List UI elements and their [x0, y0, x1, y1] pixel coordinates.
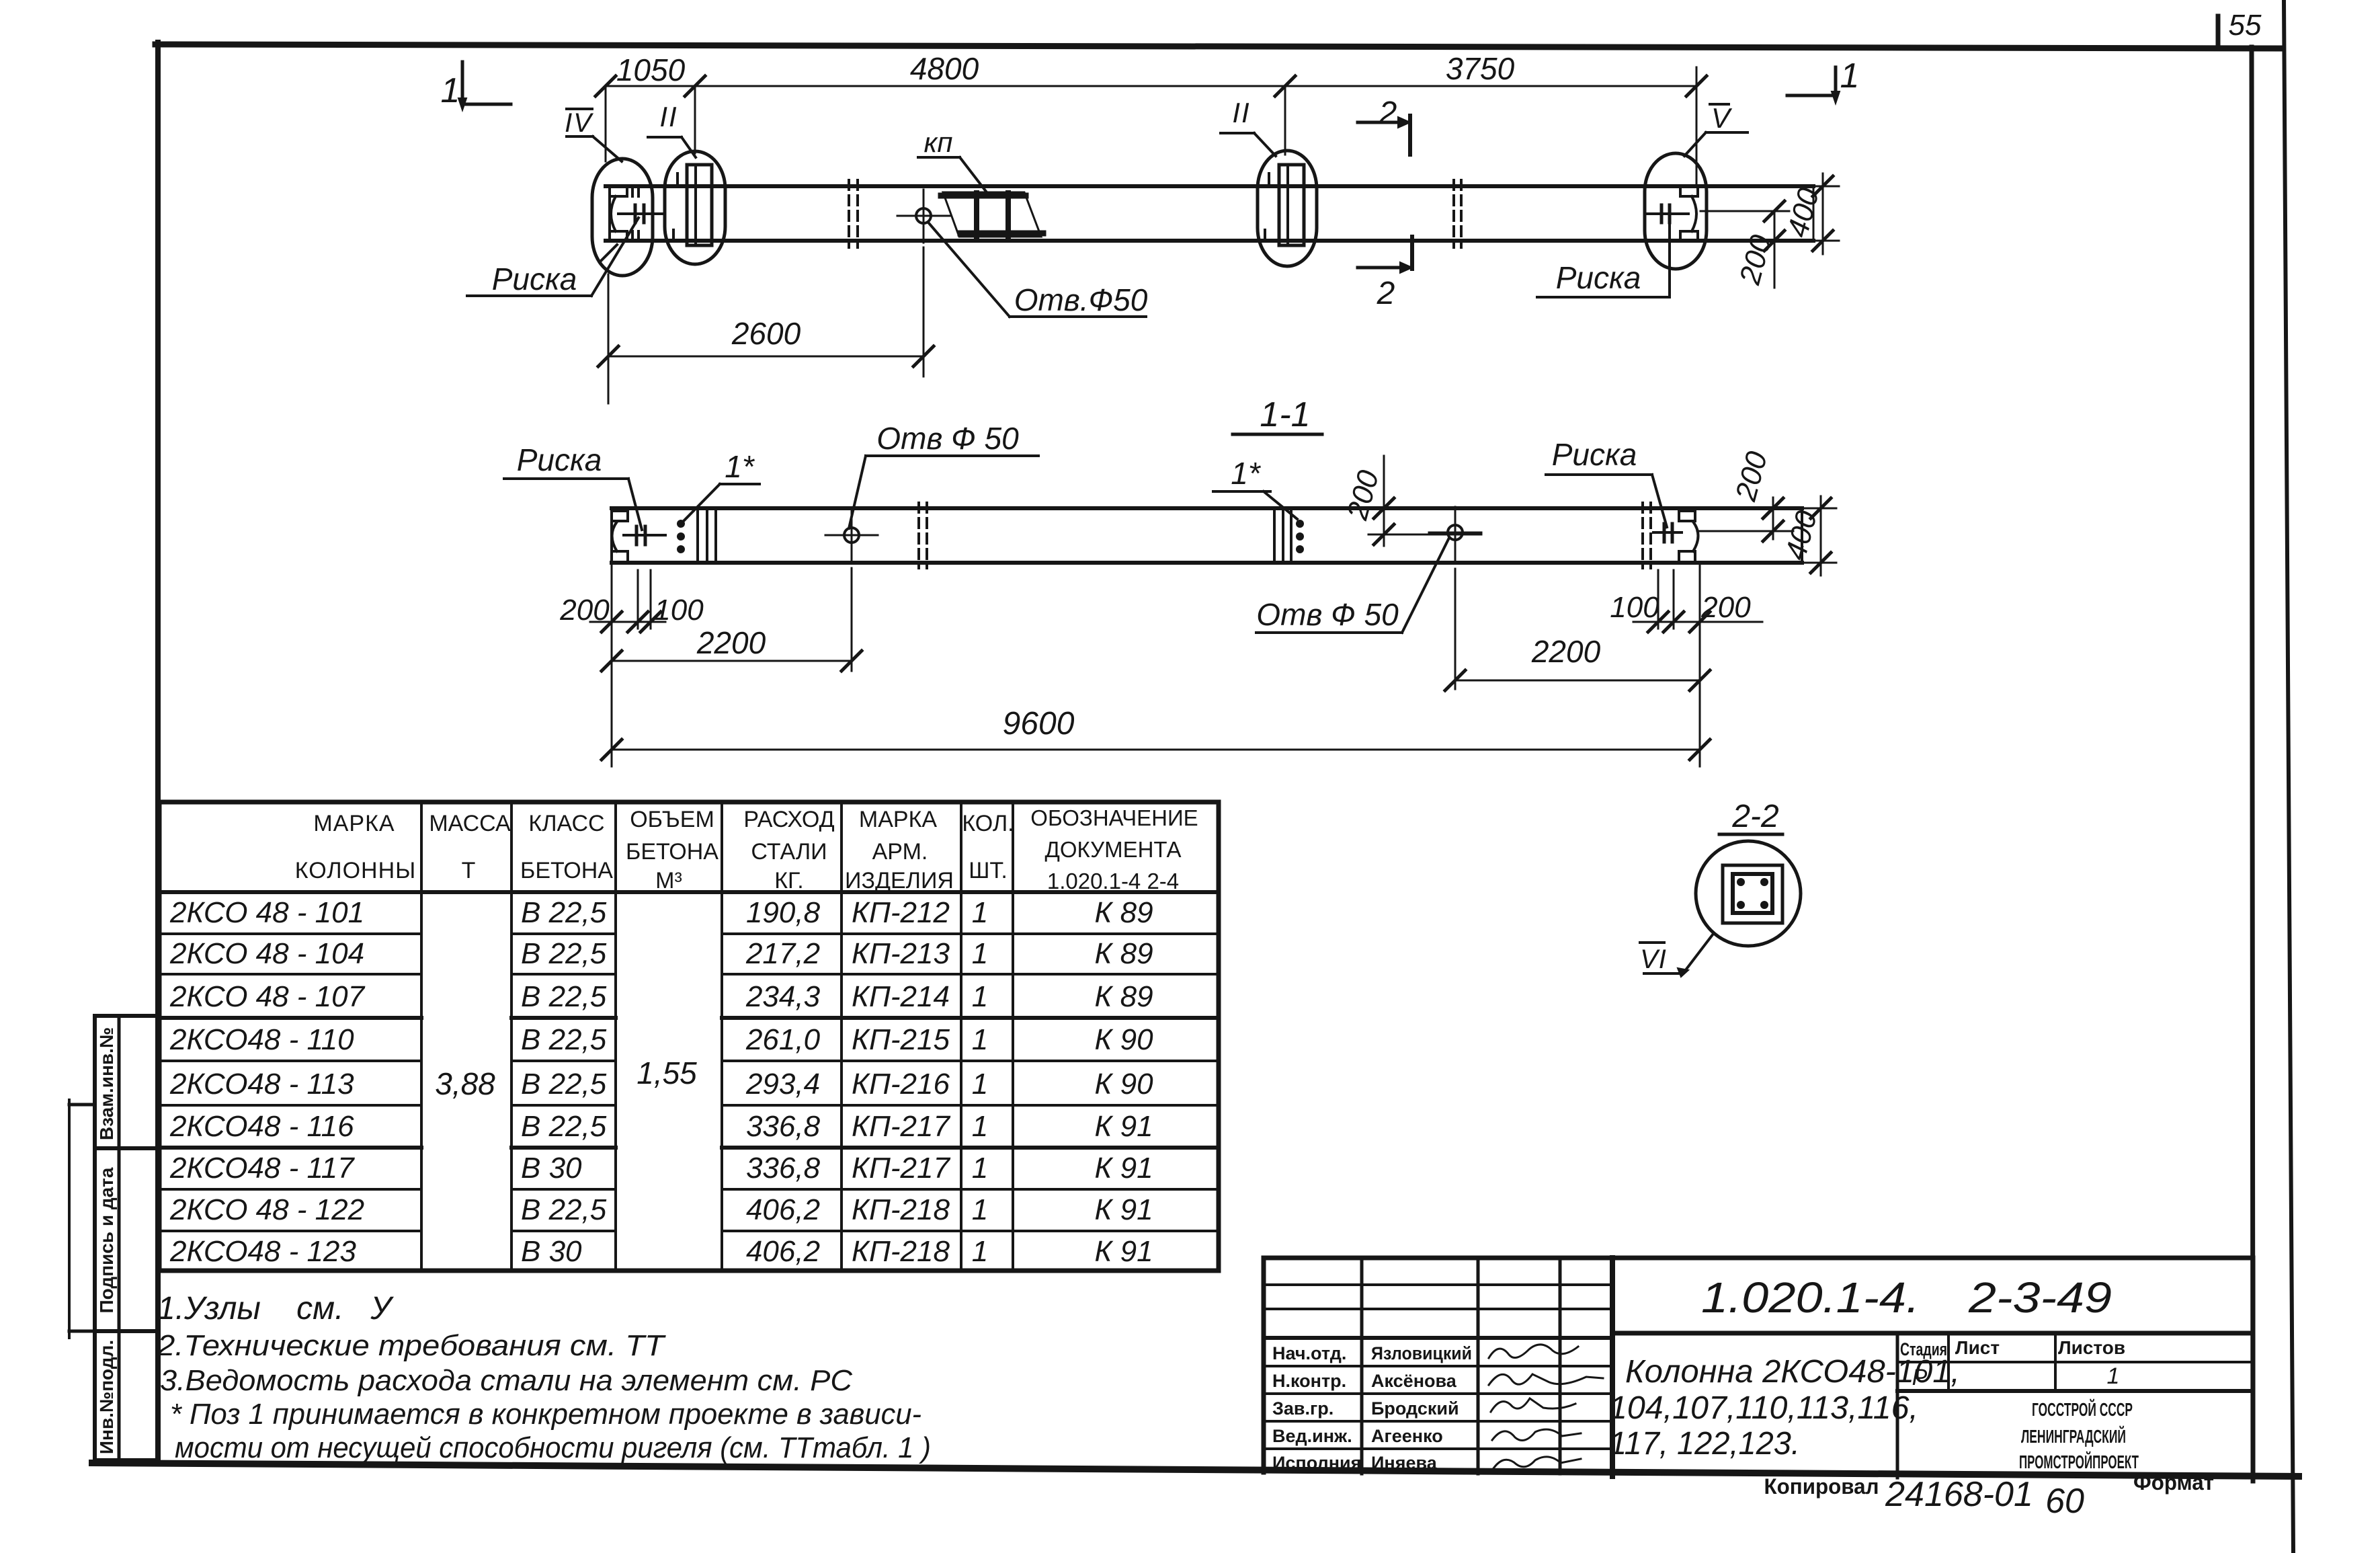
stage value P: [1912, 1365, 1928, 1390]
dim 100/200 right line: [1633, 612, 1762, 632]
left console tick: [676, 173, 679, 186]
sheet frame top border: [155, 44, 2280, 48]
dim 200 right top line: [1764, 201, 1784, 288]
detail 2-2 circle: [1696, 841, 1801, 946]
dim 2600 ext b: [923, 247, 925, 376]
riska label left 1-1: [504, 442, 642, 530]
svg-text:60: 60: [2045, 1482, 2084, 1521]
section 1-1 title: [1233, 395, 1322, 434]
svg-text:Лист: Лист: [1955, 1337, 2000, 1358]
svg-text:* Поз 1 принимается в конкретн: * Поз 1 принимается в конкретном проекте…: [170, 1398, 921, 1431]
svg-text:К 91: К 91: [1094, 1235, 1153, 1268]
dimension chain line: [606, 85, 1696, 87]
svg-text:К 91: К 91: [1094, 1193, 1153, 1226]
sec ext left long: [611, 565, 613, 766]
stage header list: [1955, 1337, 2000, 1358]
dim extension c: [1284, 86, 1286, 155]
right end top flange plate: [1680, 187, 1698, 196]
kp plate stud 1: [974, 193, 979, 236]
sec ext 100 left b: [650, 570, 652, 629]
splice lines right: [1274, 508, 1291, 563]
svg-text:104,107,110,113,116,: 104,107,110,113,116,: [1609, 1390, 1918, 1426]
margin tick upper: [69, 1100, 95, 1338]
org name line1: [2032, 1398, 2133, 1420]
svg-text:Риска: Риска: [517, 442, 602, 477]
sheet trim edge right: [2284, 0, 2293, 1553]
column break lines 2: [1454, 180, 1461, 247]
svg-text:1*: 1*: [1231, 456, 1262, 491]
svg-text:В 22,5: В 22,5: [521, 896, 607, 929]
footer kopiroval: [1764, 1474, 1879, 1499]
svg-text:2КСО 48 - 122: 2КСО 48 - 122: [169, 1193, 364, 1226]
footer format: [2133, 1470, 2214, 1495]
sec right channel arc: [1693, 522, 1698, 551]
riska label right top view: [1537, 225, 1670, 297]
margin label inv n podl: [96, 1340, 117, 1454]
svg-text:1050: 1050: [616, 52, 686, 87]
dim text 4800: [910, 51, 979, 86]
svg-text:Н.контр.: Н.контр.: [1272, 1371, 1346, 1391]
svg-text:2КСО 48 - 101: 2КСО 48 - 101: [169, 896, 364, 929]
svg-text:РАСХОД: РАСХОД: [743, 807, 834, 832]
svg-text:К 91: К 91: [1094, 1110, 1153, 1143]
svg-text:ЛЕНИНГРАДСКИЙ: ЛЕНИНГРАДСКИЙ: [2021, 1425, 2126, 1447]
kp plate top bar: [941, 193, 1026, 199]
dim extension a: [605, 86, 607, 161]
detail oval IV: [592, 159, 653, 276]
sec right top flange: [1679, 511, 1695, 521]
right end channel arc: [1692, 196, 1696, 231]
section label V: [1684, 102, 1748, 156]
svg-text:2: 2: [1379, 95, 1397, 131]
svg-text:II: II: [659, 101, 678, 132]
svg-text:К 90: К 90: [1094, 1023, 1153, 1056]
svg-text:2КСО48 - 116: 2КСО48 - 116: [169, 1110, 354, 1143]
right end bottom flange plate: [1680, 231, 1698, 240]
dim 200 left text: [559, 594, 610, 627]
svg-text:1: 1: [972, 937, 988, 970]
svg-text:В 22,5: В 22,5: [521, 980, 607, 1013]
section mark 2 upper: [1358, 95, 1410, 155]
title block signatures: [1489, 1345, 1603, 1468]
svg-text:Бродский: Бродский: [1371, 1398, 1459, 1419]
svg-text:ПРОМСТРОЙПРОЕКТ: ПРОМСТРОЙПРОЕКТ: [2019, 1451, 2139, 1472]
svg-text:II: II: [1232, 97, 1250, 128]
section mark 1 left: [441, 62, 511, 110]
dim 400 text: [1781, 184, 1825, 241]
margin box top line: [95, 1014, 158, 1018]
margin label podpis i data: [96, 1167, 117, 1313]
left console plate: [687, 165, 712, 245]
svg-text:1: 1: [972, 1110, 988, 1143]
svg-text:ГОССТРОЙ СССР: ГОССТРОЙ СССР: [2032, 1398, 2133, 1420]
sec ext top right: [1805, 508, 1836, 510]
svg-text:1,55: 1,55: [637, 1056, 697, 1090]
rebar dots left: [677, 520, 685, 553]
page number tick: [2216, 16, 2221, 47]
dim tick b: [685, 76, 705, 96]
detail 2-2 rebar dot 4: [1760, 901, 1768, 909]
sheet frame left border: [155, 42, 161, 1463]
svg-text:В 30: В 30: [521, 1235, 582, 1268]
note line 2: [157, 1329, 666, 1362]
dim 400 sec text: [1779, 507, 1823, 563]
margin box line 3: [95, 1329, 158, 1333]
kp plate stud 2: [1006, 193, 1011, 236]
mid console corbel: [1265, 230, 1279, 240]
svg-text:КГ.: КГ.: [774, 868, 804, 893]
svg-text:1.Узлы см. У: 1.Узлы см. У: [157, 1291, 394, 1326]
hole otv f50 sec right: [1429, 507, 1481, 561]
note line 4: [170, 1398, 921, 1431]
svg-text:2КСО48 - 110: 2КСО48 - 110: [169, 1023, 354, 1056]
svg-text:В 22,5: В 22,5: [521, 937, 607, 970]
svg-text:1.020.1-4 2-4: 1.020.1-4 2-4: [1047, 869, 1179, 893]
svg-text:400: 400: [1781, 184, 1825, 241]
svg-text:КП-217: КП-217: [852, 1152, 950, 1185]
svg-text:2КСО48 - 113: 2КСО48 - 113: [169, 1068, 354, 1101]
svg-text:1: 1: [1840, 56, 1860, 95]
hole otv f50 top view: [897, 190, 950, 243]
org name line2: [2021, 1425, 2126, 1447]
sec left top flange: [612, 511, 628, 521]
kp label: [918, 126, 987, 192]
left end small tick bottom: [632, 231, 639, 239]
svg-text:Взам.инв.№: Взам.инв.№: [96, 1027, 117, 1140]
dim 100/200 left line: [590, 612, 665, 632]
dim 400 sec line: [1811, 496, 1831, 575]
svg-text:КП-213: КП-213: [852, 937, 950, 970]
dim 200 end line: [1763, 497, 1783, 541]
column elevation left end face: [608, 186, 611, 241]
detail 2-2 title: [1719, 799, 1782, 834]
svg-text:В 22,5: В 22,5: [521, 1068, 607, 1101]
svg-text:2200: 2200: [696, 625, 766, 660]
detail oval II left: [665, 151, 725, 264]
detail 2-2 rebar dot 3: [1737, 901, 1745, 909]
column elevation top chord: [606, 184, 1813, 188]
rebar dots right: [1296, 520, 1304, 553]
sec right riska mark: [1653, 524, 1682, 542]
svg-text:В 22,5: В 22,5: [521, 1193, 607, 1226]
svg-text:1: 1: [972, 1193, 988, 1226]
svg-text:2200: 2200: [1531, 634, 1601, 669]
svg-text:2.Технические требования см: 2.Технические требования см. ТТ: [157, 1329, 666, 1362]
sec ext 100 left a: [637, 570, 639, 629]
svg-text:Аксёнова: Аксёнова: [1371, 1371, 1457, 1391]
svg-text:200: 200: [559, 594, 610, 627]
otv f50 label top: [929, 223, 1148, 317]
title block job titles: [1272, 1343, 1361, 1473]
detail 2-2 rebar dot 2: [1760, 878, 1768, 886]
svg-text:ОБЪЕМ: ОБЪЕМ: [630, 807, 714, 832]
dim 9600 text: [1003, 706, 1075, 742]
svg-text:МАРКА: МАРКА: [859, 807, 937, 832]
hole otv f50 sec left: [825, 510, 878, 563]
table data rows: [169, 896, 1153, 1268]
svg-text:200: 200: [1729, 448, 1774, 505]
dim 2200 right text: [1531, 634, 1601, 669]
title block object name line3: [1609, 1426, 1800, 1462]
svg-text:IV: IV: [565, 108, 593, 138]
svg-text:4800: 4800: [910, 51, 979, 86]
mid console tick: [1268, 173, 1270, 186]
page number 55: [2229, 9, 2262, 42]
svg-text:Исполния: Исполния: [1272, 1453, 1361, 1473]
svg-text:кп: кп: [924, 126, 953, 158]
svg-text:Т: Т: [462, 858, 476, 883]
mid console plate: [1279, 165, 1304, 245]
section label II left: [648, 101, 696, 157]
svg-text:КЛАСС: КЛАСС: [528, 811, 604, 836]
svg-text:КП-218: КП-218: [852, 1193, 950, 1226]
svg-text:2КСО48 - 123: 2КСО48 - 123: [169, 1235, 356, 1268]
svg-text:КП-215: КП-215: [852, 1023, 950, 1056]
svg-text:200: 200: [1700, 591, 1751, 624]
riska label right 1-1: [1546, 437, 1667, 527]
sec ext hole right: [1454, 569, 1456, 689]
section bar right end face: [1801, 508, 1803, 563]
svg-text:2КСО 48 - 104: 2КСО 48 - 104: [169, 937, 364, 970]
svg-text:234,3: 234,3: [745, 980, 821, 1013]
dim tick d: [1686, 76, 1707, 96]
svg-text:2: 2: [1377, 276, 1395, 311]
svg-text:Листов: Листов: [2058, 1337, 2125, 1358]
sec break dashed right: [1643, 503, 1651, 568]
dim extension b: [694, 86, 696, 153]
detail 2-2 inner square: [1733, 874, 1772, 913]
svg-text:1: 1: [972, 980, 988, 1013]
column elevation bottom chord: [606, 239, 1813, 243]
dim 200 right bottom text: [1700, 591, 1751, 624]
svg-text:406,2: 406,2: [746, 1235, 820, 1268]
left console corbel: [673, 230, 687, 240]
sec ext 100 right b: [1673, 570, 1675, 629]
dim 2200 right line: [1445, 670, 1710, 690]
section bar top chord: [612, 506, 1802, 510]
table grid: [159, 802, 1219, 1271]
kp plate outline: [943, 192, 1041, 237]
dim extension d: [1696, 67, 1698, 185]
svg-text:Отв Ф 50: Отв Ф 50: [1256, 597, 1399, 632]
svg-text:1.020.1-4.: 1.020.1-4.: [1701, 1273, 1920, 1322]
svg-text:КП-212: КП-212: [852, 896, 950, 929]
note line 3: [160, 1364, 853, 1397]
sheet frame right inner border: [2252, 47, 2253, 1480]
svg-text:Язловицкий: Язловицкий: [1371, 1343, 1472, 1363]
table mass value: [435, 1066, 495, 1101]
svg-text:СТАЛИ: СТАЛИ: [751, 839, 827, 865]
org name line3: [2019, 1451, 2139, 1472]
sheet frame bottom border: [92, 1463, 2299, 1476]
svg-text:Иняева: Иняева: [1371, 1453, 1438, 1473]
section bar bottom chord: [612, 561, 1802, 565]
footer 60: [2045, 1482, 2084, 1521]
svg-text:Зав.гр.: Зав.гр.: [1272, 1398, 1333, 1419]
svg-text:Агеенко: Агеенко: [1371, 1426, 1443, 1446]
svg-text:Р: Р: [1912, 1365, 1928, 1390]
svg-text:V: V: [1711, 102, 1733, 134]
section label II mid: [1221, 97, 1276, 156]
svg-text:Нач.отд.: Нач.отд.: [1272, 1343, 1346, 1363]
svg-text:ДОКУМЕНТА: ДОКУМЕНТА: [1045, 837, 1182, 862]
sec ext hole left: [851, 568, 853, 671]
svg-text:М³: М³: [655, 868, 682, 893]
dim 100 left text: [654, 594, 704, 627]
svg-text:Риска: Риска: [492, 262, 577, 296]
label 1* left: [684, 449, 760, 520]
svg-text:2-3-49: 2-3-49: [1968, 1273, 2112, 1322]
svg-text:МАССА: МАССА: [429, 811, 511, 836]
dim text 3750: [1446, 51, 1515, 86]
kp plate bottom bar: [960, 231, 1043, 237]
svg-text:1: 1: [972, 1023, 988, 1056]
sec left channel arc: [612, 522, 618, 551]
svg-text:400: 400: [1779, 507, 1823, 563]
svg-text:БЕТОНА: БЕТОНА: [520, 858, 613, 883]
svg-text:Отв.Ф50: Отв.Ф50: [1014, 282, 1148, 317]
detail oval II mid: [1258, 151, 1317, 266]
svg-text:КП-218: КП-218: [852, 1235, 950, 1268]
riska label left top view: [467, 218, 639, 296]
detail 2-2 rebar dot 1: [1737, 878, 1745, 886]
svg-text:К 91: К 91: [1094, 1152, 1153, 1185]
section label IV: [565, 108, 622, 161]
svg-text:Вед.инж.: Вед.инж.: [1272, 1426, 1352, 1446]
dim 2200 left line: [602, 651, 862, 671]
svg-text:Инв.№подл.: Инв.№подл.: [96, 1340, 117, 1454]
table volume value: [637, 1056, 697, 1090]
svg-text:9600: 9600: [1003, 706, 1075, 742]
svg-text:1: 1: [441, 71, 460, 110]
svg-text:КП-217: КП-217: [852, 1110, 950, 1143]
dim 400 ext top: [1816, 186, 1839, 188]
sec ext bottom right: [1805, 562, 1836, 564]
left end top flange plate: [610, 187, 627, 196]
svg-text:2КСО 48 - 107: 2КСО 48 - 107: [169, 980, 366, 1013]
svg-text:Подпись и дата: Подпись и дата: [96, 1167, 117, 1313]
label 1* right: [1213, 456, 1297, 519]
note line 1: [157, 1291, 394, 1326]
svg-text:мости от несущей способности: мости от несущей способности ригеля (см.…: [175, 1431, 931, 1464]
title block object name: [1625, 1354, 1960, 1390]
section mark 1 right: [1787, 56, 1859, 104]
dim 2200 left text: [696, 625, 766, 660]
document number: [1701, 1273, 2112, 1322]
dim 200 end ext: [1697, 530, 1793, 532]
svg-text:2КСО48 - 117: 2КСО48 - 117: [169, 1152, 355, 1185]
svg-text:К 90: К 90: [1094, 1068, 1153, 1101]
margin label vzam inv: [96, 1027, 117, 1140]
dim 2600 line: [598, 346, 934, 366]
stage header stadija: [1900, 1339, 1947, 1359]
svg-text:100: 100: [654, 594, 704, 627]
title block object name line2: [1609, 1390, 1918, 1426]
dim 200 end text: [1729, 448, 1774, 505]
dim text 1050: [616, 52, 686, 87]
detail 2-2 leader: [1644, 934, 1713, 977]
svg-text:КОЛ.: КОЛ.: [962, 811, 1014, 836]
svg-text:Стадия: Стадия: [1900, 1339, 1947, 1359]
svg-text:БЕТОНА: БЕТОНА: [626, 839, 719, 865]
title block names: [1371, 1343, 1472, 1473]
svg-text:406,2: 406,2: [746, 1193, 820, 1226]
sec ext 100 right a: [1657, 570, 1659, 629]
sec left riska mark: [624, 526, 665, 545]
svg-text:1: 1: [972, 1152, 988, 1185]
note line 5: [175, 1431, 931, 1464]
margin box line 2: [95, 1146, 158, 1150]
svg-text:В 30: В 30: [521, 1152, 582, 1185]
sec ext right long: [1699, 565, 1701, 766]
svg-text:1: 1: [972, 896, 988, 929]
left end bottom flange plate: [610, 231, 627, 240]
svg-text:Риска: Риска: [1556, 260, 1641, 295]
splice lines left: [698, 508, 716, 563]
footer copy number: [1885, 1475, 2033, 1514]
dim 100 right text: [1610, 591, 1659, 624]
node label VI: [1640, 943, 1667, 974]
margin tick lower: [69, 1330, 95, 1333]
svg-text:ИЗДЕЛИЯ: ИЗДЕЛИЯ: [845, 868, 954, 893]
dim tick c: [1275, 76, 1295, 96]
listov value 1: [2107, 1363, 2120, 1389]
svg-text:1*: 1*: [725, 449, 755, 484]
dim 200 mid text: [1341, 467, 1386, 524]
dim 400 ext bottom: [1816, 240, 1839, 242]
svg-text:КОЛОННЫ: КОЛОННЫ: [295, 858, 416, 883]
svg-text:2600: 2600: [731, 316, 801, 351]
svg-text:К 89: К 89: [1094, 980, 1153, 1013]
svg-text:Формат: Формат: [2133, 1470, 2214, 1495]
svg-text:АРМ.: АРМ.: [872, 839, 928, 865]
sec right bottom flange: [1679, 551, 1695, 562]
table header texts: [295, 805, 1198, 893]
svg-text:1: 1: [2107, 1363, 2120, 1389]
svg-text:1: 1: [972, 1235, 988, 1268]
margin box verticals: [95, 1016, 119, 1460]
column elevation right end face: [1813, 186, 1815, 241]
margin box bottom line: [95, 1458, 158, 1462]
dim 200 right top text: [1733, 231, 1778, 288]
left end channel arc: [611, 196, 616, 231]
svg-text:Риска: Риска: [1552, 437, 1637, 472]
dim 200 mid ext: [1368, 534, 1481, 536]
section mark 2 lower: [1358, 237, 1412, 311]
svg-text:1: 1: [972, 1068, 988, 1101]
svg-text:К 89: К 89: [1094, 896, 1153, 929]
left end riska mark: [618, 205, 664, 223]
title block grid: [1264, 1258, 2253, 1481]
svg-text:КП-216: КП-216: [852, 1068, 950, 1101]
detail oval V: [1645, 153, 1707, 269]
svg-text:VI: VI: [1640, 945, 1667, 974]
sec left bottom flange: [612, 551, 628, 562]
svg-text:117, 122,123.: 117, 122,123.: [1609, 1426, 1800, 1462]
svg-text:3750: 3750: [1446, 51, 1515, 86]
svg-text:293,4: 293,4: [745, 1068, 820, 1101]
stage header listov: [2058, 1337, 2125, 1358]
dim 200 right top ext: [1700, 210, 1789, 212]
otv f50 label sec right: [1256, 538, 1449, 633]
svg-text:3.Ведомость расхода стали н: 3.Ведомость расхода стали на элемент см.…: [160, 1364, 853, 1397]
dim 9600 line: [602, 740, 1710, 760]
right end riska mark: [1645, 205, 1688, 223]
svg-text:В 22,5: В 22,5: [521, 1110, 607, 1143]
svg-text:24168-01: 24168-01: [1885, 1475, 2033, 1514]
column break lines 1: [849, 180, 858, 247]
svg-text:Копировал: Копировал: [1764, 1474, 1879, 1499]
